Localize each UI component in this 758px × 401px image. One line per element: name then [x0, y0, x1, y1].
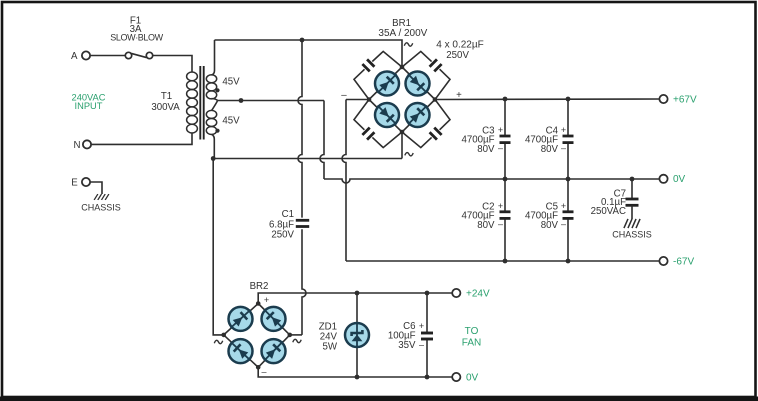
svg-text:0V: 0V	[466, 372, 479, 383]
wire top rail 45V to BR1 ~	[215, 40, 403, 67]
svg-text:+: +	[561, 201, 566, 211]
label C5	[525, 202, 559, 232]
wire -67V rail	[346, 260, 661, 262]
wire BR1 snubber top-left	[354, 51, 402, 99]
svg-text:+: +	[419, 321, 424, 331]
svg-text:+: +	[561, 125, 566, 135]
wire BR1 snubber bottom-right	[402, 100, 450, 148]
chassis ground E	[81, 194, 121, 213]
chassis ground C7	[624, 219, 640, 228]
wire centre tap to 0V corner	[218, 100, 325, 102]
svg-text:–: –	[341, 90, 347, 101]
capacitor snubber bottom-right	[430, 128, 442, 140]
terminal A	[71, 51, 90, 62]
diode BR2 D2	[260, 306, 286, 332]
wire 0V rail	[324, 179, 661, 183]
label 240VAC INPUT	[72, 92, 106, 111]
wire +67V rail	[435, 98, 661, 101]
capacitor C1	[296, 220, 309, 226]
diode BR2 D4	[260, 338, 286, 364]
svg-text:A: A	[71, 51, 78, 62]
diode BR2 D3	[227, 338, 254, 364]
svg-text:35V: 35V	[398, 340, 416, 351]
capacitor C3	[500, 136, 511, 143]
wire top secondary lead	[212, 40, 215, 75]
svg-text:TO: TO	[465, 326, 479, 337]
diode BR1 D2	[404, 70, 430, 96]
svg-text:5W: 5W	[322, 342, 337, 353]
svg-text:–: –	[561, 219, 566, 229]
wire fuse to T1 primary	[153, 56, 192, 73]
label 45V upper	[222, 77, 240, 88]
svg-text:N: N	[74, 140, 81, 151]
diode BR1 D3	[374, 102, 400, 128]
label T1 300VA	[151, 91, 180, 113]
phase dot upper secondary	[215, 88, 219, 92]
capacitor snubber top-left	[362, 59, 374, 71]
svg-text:–: –	[498, 219, 503, 229]
svg-text:+: +	[498, 201, 503, 211]
svg-text:45V: 45V	[222, 116, 240, 127]
transformer T1 core	[200, 66, 203, 140]
capacitor C5	[563, 212, 574, 219]
label BR2	[250, 281, 269, 292]
wire C4/C5 column	[567, 99, 569, 261]
node +24V junctions	[355, 291, 430, 296]
terminal +24V	[452, 288, 490, 299]
bridge BR1 diamond	[369, 67, 435, 132]
label C6 polarity	[419, 321, 424, 350]
svg-text:BR2: BR2	[250, 281, 269, 292]
svg-text:–: –	[561, 143, 566, 153]
svg-text:T1: T1	[161, 91, 172, 102]
label F1	[110, 16, 163, 43]
label C2	[461, 202, 495, 232]
svg-text:+67V: +67V	[673, 94, 697, 105]
label BR1	[378, 18, 427, 39]
bridge BR2 diamond	[224, 304, 290, 368]
phase dot lower secondary	[215, 129, 219, 133]
svg-text:250VAC: 250VAC	[591, 206, 626, 217]
svg-text:300VA: 300VA	[151, 102, 180, 113]
svg-text:INPUT: INPUT	[75, 101, 103, 111]
wire A to fuse	[90, 55, 125, 57]
wire ZD1 column	[356, 293, 358, 377]
wire to BR2 left ~	[213, 159, 224, 335]
label TO FAN	[462, 326, 481, 349]
svg-text:–: –	[419, 340, 424, 350]
wire center tap leads	[212, 99, 218, 111]
capacitor C6	[421, 333, 433, 339]
wire BR1 snubber top-right	[402, 51, 450, 99]
node BR1 corners	[367, 65, 438, 135]
wire E to chassis	[90, 182, 102, 194]
label 45V lower	[222, 116, 240, 127]
node +67V junctions	[503, 97, 571, 102]
diode BR2 D1	[227, 306, 254, 332]
label C4	[525, 126, 559, 155]
svg-text:C1: C1	[282, 209, 294, 220]
svg-text:45V: 45V	[222, 77, 240, 88]
transformer T1 primary winding	[187, 72, 198, 133]
node BR2 corners	[221, 301, 292, 369]
terminal -67V	[659, 257, 694, 268]
label C6	[388, 321, 416, 351]
wire C3/C2 column	[504, 99, 506, 261]
node centre tap junction	[239, 98, 244, 103]
label C7	[591, 189, 626, 218]
terminal fan 0V	[452, 372, 478, 383]
svg-text:4 x 0.22µF: 4 x 0.22µF	[436, 39, 483, 50]
capacitor C2	[500, 212, 511, 219]
wire BR2 - to 0V	[258, 367, 454, 377]
node junction lower secondary	[211, 156, 216, 161]
capacitor snubber bottom-left	[362, 128, 374, 140]
wire lower secondary to BR1 ~	[213, 132, 402, 159]
svg-text:250V: 250V	[446, 50, 469, 61]
terminal +67V	[659, 94, 697, 105]
label BR1 polarity	[341, 43, 462, 156]
svg-text:–: –	[498, 143, 503, 153]
wire centre tap down to 0V rail	[320, 101, 324, 180]
svg-text:80V: 80V	[541, 144, 559, 155]
wire N to T1 primary	[91, 133, 192, 144]
svg-text:80V: 80V	[477, 220, 495, 231]
diode BR1 D4	[404, 102, 430, 128]
svg-text:CHASSIS: CHASSIS	[81, 203, 121, 213]
diode BR1 D1	[374, 70, 400, 96]
svg-text:SLOW·BLOW: SLOW·BLOW	[110, 33, 163, 43]
label ZD1	[319, 322, 338, 353]
fuse F1	[125, 52, 152, 58]
terminal E	[71, 178, 90, 189]
label cap polarities	[498, 125, 566, 229]
svg-text:+: +	[456, 90, 462, 101]
wire bottom secondary lead	[212, 134, 215, 158]
terminal +0V	[659, 174, 685, 185]
capacitor C7	[626, 179, 639, 219]
svg-text:+24V: +24V	[466, 288, 490, 299]
wire C1 branch vertical	[298, 40, 302, 218]
label C1	[269, 209, 295, 241]
node fan 0V junctions	[355, 375, 430, 380]
wire C6 column	[426, 293, 428, 377]
node 0V C3 junction	[503, 177, 635, 182]
svg-text:FAN: FAN	[462, 338, 481, 349]
svg-text:80V: 80V	[541, 220, 559, 231]
wire BR2 + to +24V	[258, 293, 454, 304]
svg-text:CHASSIS: CHASSIS	[612, 230, 652, 240]
svg-text:80V: 80V	[477, 144, 495, 155]
label CHASSIS C7	[612, 230, 652, 240]
svg-text:–: –	[261, 367, 266, 377]
wire BR1 snubber bottom-left	[354, 100, 402, 148]
svg-text:+: +	[264, 295, 269, 305]
capacitor C4	[563, 136, 574, 143]
svg-text:E: E	[71, 178, 78, 189]
transformer T1 secondary winding lower 45V	[206, 110, 216, 134]
node -67V junctions	[503, 259, 571, 264]
label 4x022uF	[436, 39, 483, 61]
svg-text:0V: 0V	[673, 174, 686, 185]
wire C1 to BR2 right ~	[290, 229, 306, 335]
svg-text:35A / 200V: 35A / 200V	[378, 28, 427, 39]
label C3	[461, 126, 495, 155]
wire BR1 - to -67V rail	[342, 100, 369, 262]
svg-text:-67V: -67V	[673, 257, 694, 268]
node junction top rail	[300, 38, 305, 43]
label BR2 polarity	[214, 295, 301, 377]
terminal N	[74, 140, 92, 151]
svg-text:250V: 250V	[271, 230, 294, 241]
zener ZD1	[345, 323, 369, 347]
svg-text:+: +	[498, 125, 503, 135]
transformer T1 secondary winding upper 45V	[206, 75, 216, 99]
capacitor snubber top-right	[430, 59, 442, 71]
